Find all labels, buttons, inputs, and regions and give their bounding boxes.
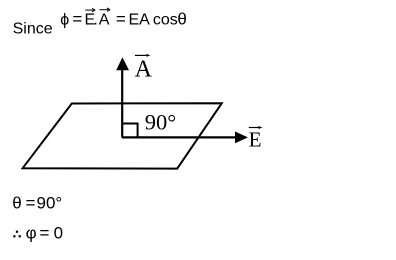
svg-text:E: E	[249, 127, 262, 151]
formula phi = E.A = EAcos(theta)	[60, 8, 187, 29]
text phi = 0	[26, 224, 63, 243]
vector A shaft	[121, 69, 123, 138]
svg-text:90°: 90°	[145, 110, 177, 135]
svg-text:=: =	[40, 224, 50, 243]
svg-text:θ: θ	[177, 10, 186, 29]
svg-text:φ: φ	[26, 224, 37, 243]
svg-text:ϕ: ϕ	[60, 12, 69, 29]
svg-text:=: =	[26, 193, 36, 212]
svg-text:θ: θ	[12, 193, 21, 212]
svg-text:cos: cos	[153, 12, 178, 29]
svg-text:EA: EA	[129, 12, 151, 29]
right angle marker	[122, 124, 138, 138]
svg-text:=: =	[116, 10, 126, 29]
plane surface parallelogram	[23, 103, 222, 168]
text theta = 90 degrees	[12, 193, 62, 212]
vector E arrowhead	[235, 132, 248, 144]
arrow over A	[99, 8, 110, 11]
arrow over label E	[249, 127, 260, 129]
svg-text:A: A	[135, 57, 153, 83]
svg-text:0: 0	[54, 224, 63, 243]
therefore symbol dots	[13, 231, 21, 238]
vector A arrowhead	[116, 57, 129, 70]
arrow over label A	[135, 54, 148, 56]
vector E shaft	[122, 136, 237, 138]
svg-text:A: A	[99, 12, 110, 29]
svg-text:Since: Since	[13, 20, 53, 37]
arrow over E	[85, 8, 95, 11]
svg-text:.: .	[93, 12, 97, 29]
svg-text:90°: 90°	[37, 193, 63, 212]
svg-text:=: =	[72, 10, 82, 29]
